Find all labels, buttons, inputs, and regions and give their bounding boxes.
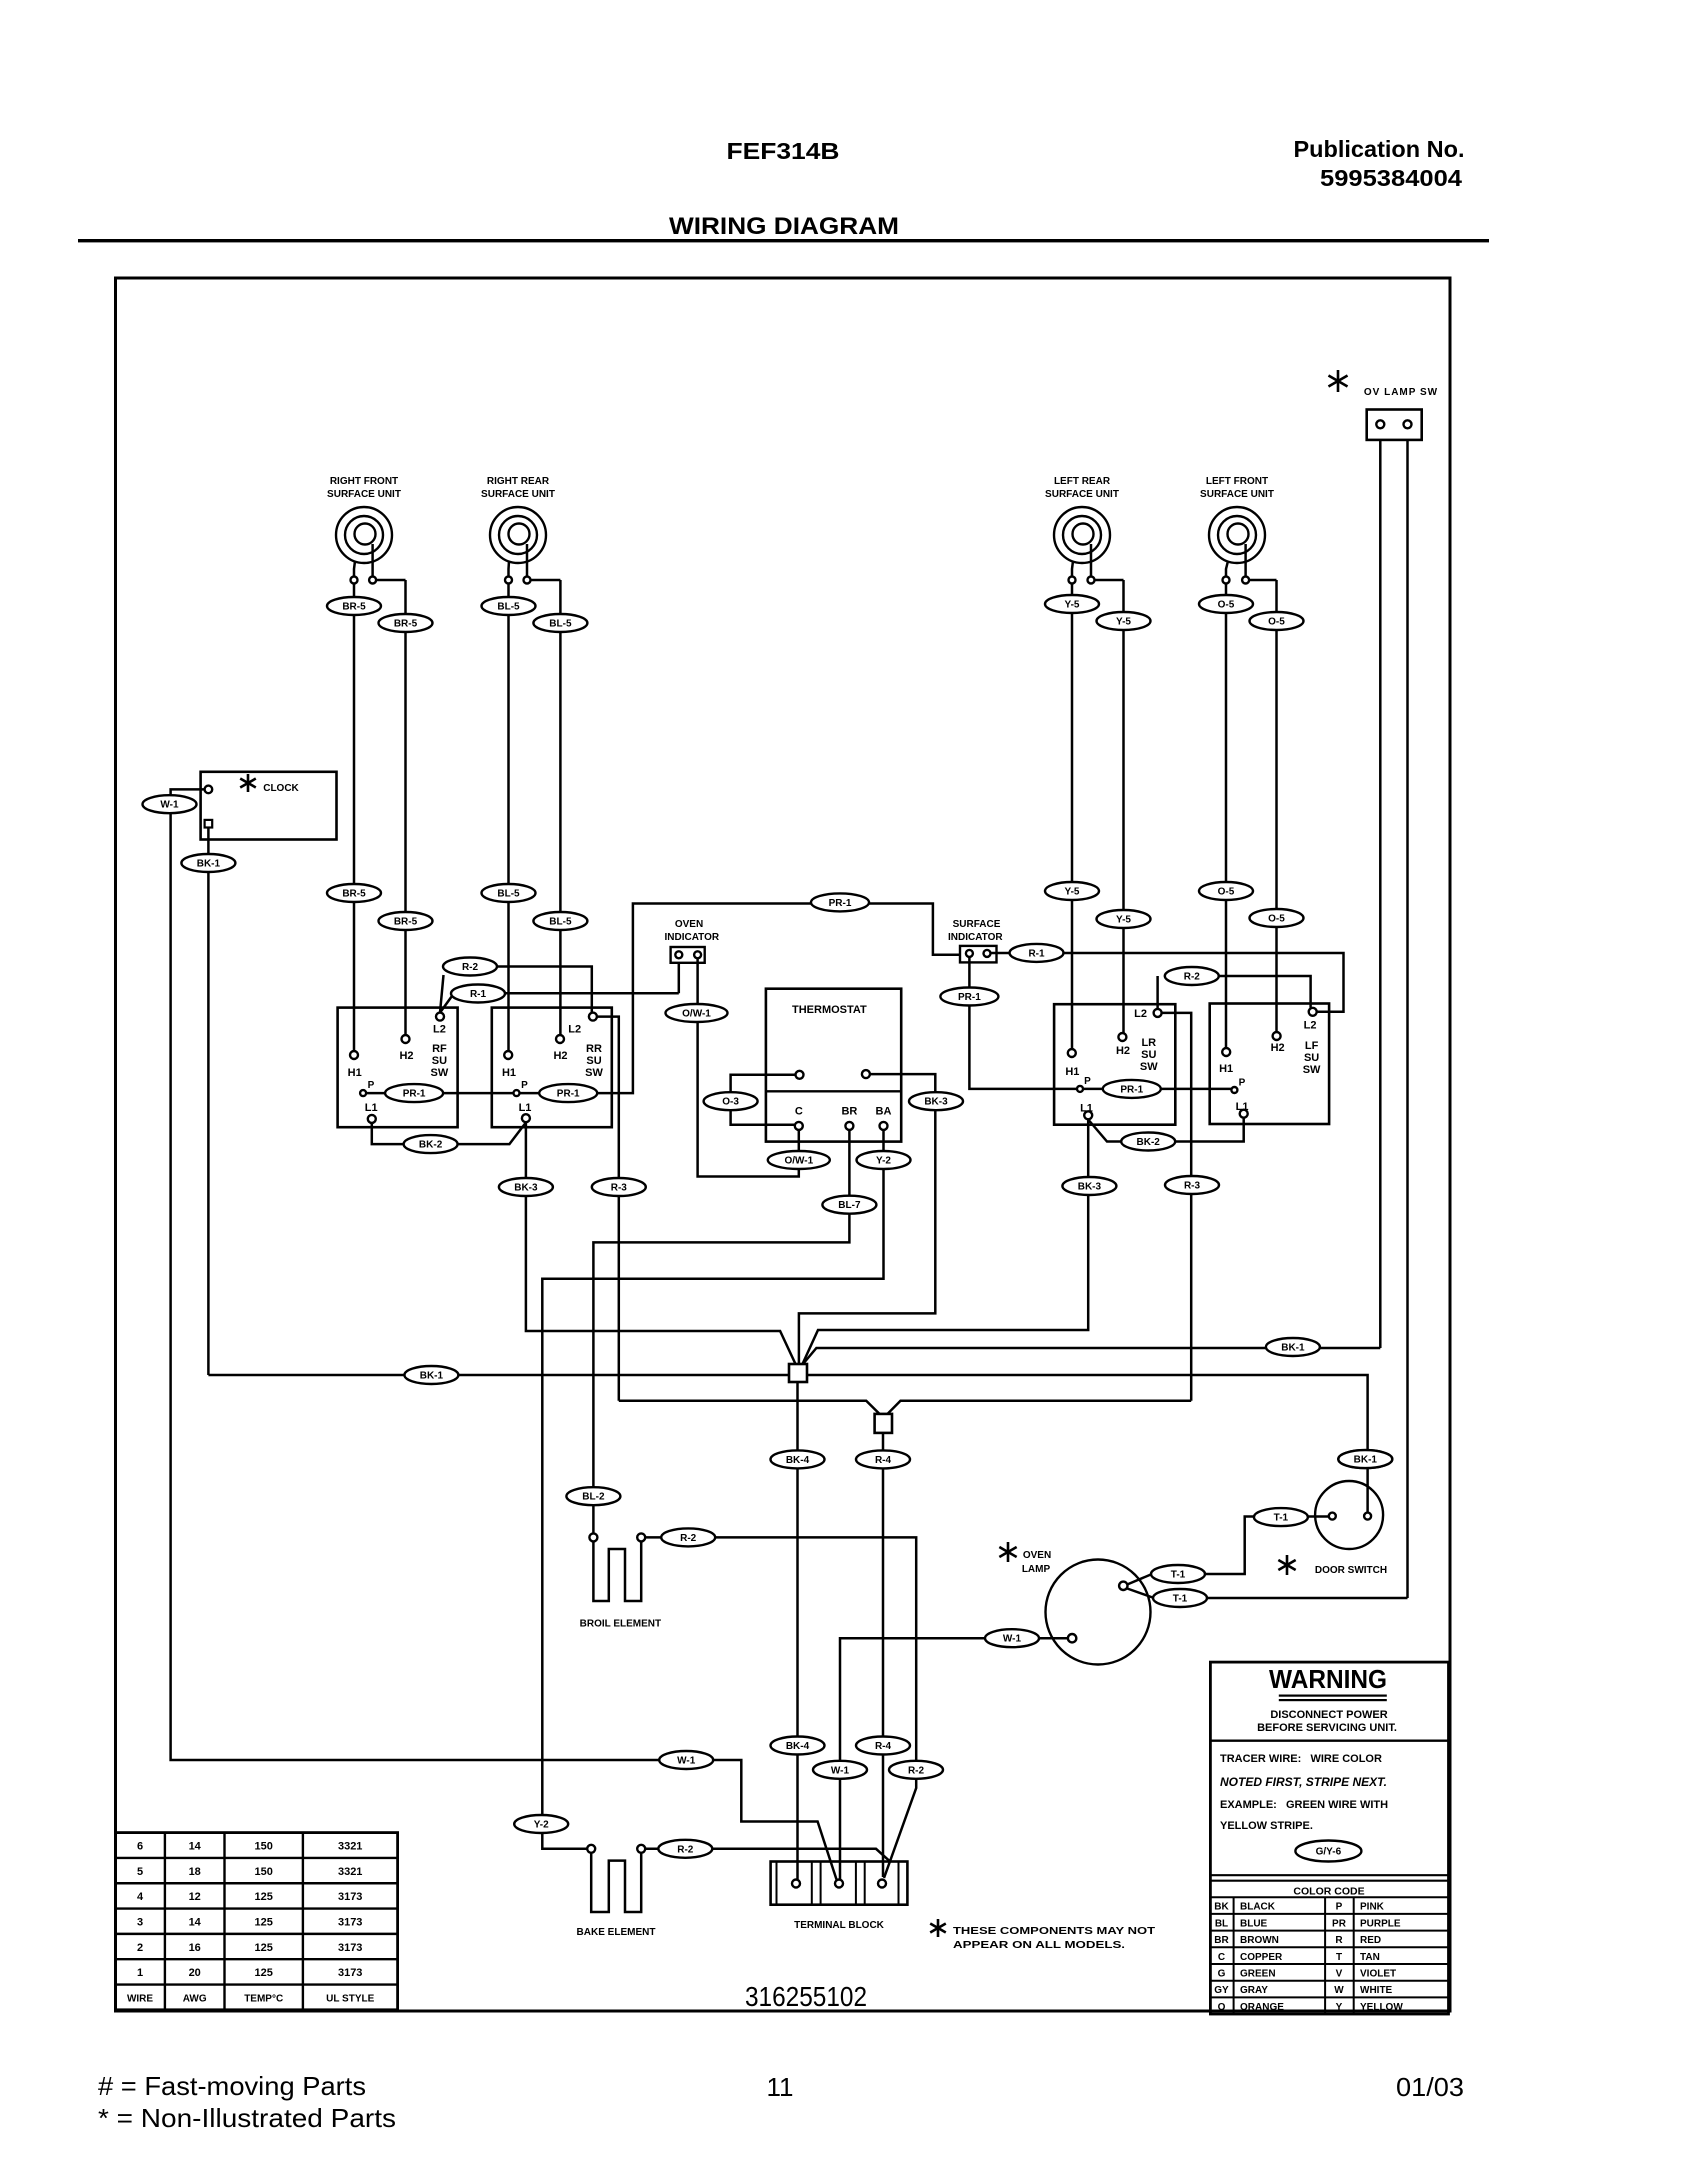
- svg-text:2: 2: [137, 1942, 143, 1954]
- svg-text:BK: BK: [1214, 1902, 1229, 1913]
- svg-text:Y-5: Y-5: [1116, 915, 1131, 926]
- svg-text:DOOR SWITCH: DOOR SWITCH: [1315, 1565, 1387, 1576]
- svg-text:H2: H2: [1116, 1045, 1130, 1057]
- svg-text:BK-2: BK-2: [1137, 1137, 1161, 1148]
- svg-text:W-1: W-1: [677, 1756, 696, 1767]
- svg-text:BA: BA: [876, 1106, 892, 1118]
- svg-text:O-5: O-5: [1218, 887, 1235, 898]
- svg-text:L1: L1: [365, 1102, 378, 1114]
- svg-text:T-1: T-1: [1274, 1513, 1289, 1524]
- svg-text:R-2: R-2: [462, 962, 479, 973]
- svg-text:P: P: [1084, 1076, 1091, 1087]
- svg-text:BAKE ELEMENT: BAKE ELEMENT: [577, 1927, 656, 1938]
- svg-text:BROWN: BROWN: [1240, 1935, 1279, 1946]
- svg-text:TEMP°C: TEMP°C: [244, 1994, 283, 2005]
- svg-text:20: 20: [189, 1967, 201, 1979]
- svg-text:R-2: R-2: [1184, 972, 1201, 983]
- svg-text:BK-1: BK-1: [1281, 1343, 1305, 1354]
- svg-text:COPPER: COPPER: [1240, 1952, 1283, 1963]
- svg-text:BR-5: BR-5: [394, 619, 418, 630]
- svg-text:BL-5: BL-5: [497, 889, 520, 900]
- svg-text:BR: BR: [841, 1106, 857, 1118]
- svg-text:16: 16: [189, 1942, 201, 1954]
- svg-text:Publication No.: Publication No.: [1294, 136, 1465, 162]
- svg-text:1: 1: [137, 1967, 143, 1979]
- svg-text:P: P: [521, 1080, 528, 1091]
- svg-text:L1: L1: [1080, 1103, 1093, 1115]
- svg-text:01/03: 01/03: [1396, 2072, 1464, 2102]
- svg-text:R-3: R-3: [611, 1183, 628, 1194]
- svg-text:SW: SW: [1303, 1064, 1321, 1076]
- svg-text:O-5: O-5: [1268, 914, 1285, 925]
- svg-text:RIGHT FRONT: RIGHT FRONT: [330, 476, 398, 487]
- svg-text:Y-2: Y-2: [876, 1156, 891, 1167]
- svg-text:150: 150: [255, 1841, 273, 1853]
- svg-text:G: G: [1218, 1969, 1226, 1980]
- svg-text:Y: Y: [1336, 2002, 1343, 2013]
- svg-text:BEFORE SERVICING UNIT.: BEFORE SERVICING UNIT.: [1257, 1722, 1397, 1734]
- svg-text:BL: BL: [1215, 1918, 1228, 1929]
- svg-text:BL-5: BL-5: [497, 602, 520, 613]
- svg-text:THERMOSTAT: THERMOSTAT: [792, 1004, 867, 1016]
- svg-text:BR-5: BR-5: [342, 889, 366, 900]
- svg-text:GREEN: GREEN: [1240, 1969, 1276, 1980]
- svg-text:* = Non-Illustrated Parts: * = Non-Illustrated Parts: [98, 2103, 396, 2133]
- svg-text:Y-5: Y-5: [1116, 617, 1131, 628]
- svg-text:14: 14: [189, 1841, 202, 1853]
- svg-text:H2: H2: [399, 1050, 413, 1062]
- svg-text:BL-5: BL-5: [549, 917, 572, 928]
- svg-text:BL-2: BL-2: [582, 1492, 605, 1503]
- svg-text:LEFT REAR: LEFT REAR: [1054, 476, 1111, 487]
- svg-text:PURPLE: PURPLE: [1360, 1918, 1401, 1929]
- svg-text:L2: L2: [433, 1024, 446, 1036]
- svg-text:PR-1: PR-1: [557, 1089, 580, 1100]
- svg-text:SURFACE UNIT: SURFACE UNIT: [1045, 489, 1119, 500]
- svg-text:L2: L2: [1304, 1020, 1317, 1032]
- svg-text:Y-2: Y-2: [534, 1820, 549, 1831]
- svg-text:R-4: R-4: [875, 1741, 892, 1752]
- svg-text:BK-4: BK-4: [786, 1455, 810, 1466]
- svg-text:PR: PR: [1332, 1918, 1347, 1929]
- svg-text:T-1: T-1: [1173, 1594, 1188, 1605]
- svg-text:SURFACE: SURFACE: [953, 919, 1001, 930]
- svg-text:Y-5: Y-5: [1064, 887, 1079, 898]
- svg-text:12: 12: [189, 1891, 201, 1903]
- svg-text:W: W: [1334, 1985, 1344, 1996]
- svg-text:L2: L2: [568, 1024, 581, 1036]
- svg-text:R-2: R-2: [677, 1844, 694, 1855]
- svg-text:OV LAMP SW: OV LAMP SW: [1364, 387, 1438, 398]
- svg-text:H1: H1: [1219, 1063, 1233, 1075]
- svg-text:VIOLET: VIOLET: [1360, 1969, 1396, 1980]
- svg-text:R-2: R-2: [680, 1533, 697, 1544]
- svg-text:RED: RED: [1360, 1935, 1381, 1946]
- svg-text:L1: L1: [1236, 1101, 1249, 1113]
- svg-text:R-1: R-1: [1028, 948, 1045, 959]
- svg-text:SU: SU: [586, 1055, 601, 1067]
- svg-text:3173: 3173: [338, 1942, 362, 1954]
- svg-text:DISCONNECT POWER: DISCONNECT POWER: [1270, 1709, 1387, 1721]
- svg-text:125: 125: [255, 1942, 273, 1954]
- svg-text:LAMP: LAMP: [1022, 1564, 1051, 1575]
- svg-text:TERMINAL BLOCK: TERMINAL BLOCK: [794, 1920, 885, 1931]
- svg-text:H2: H2: [1271, 1042, 1285, 1054]
- svg-text:BK-3: BK-3: [514, 1183, 538, 1194]
- svg-text:BK-3: BK-3: [924, 1097, 948, 1108]
- svg-text:# = Fast-moving Parts: # = Fast-moving Parts: [98, 2071, 366, 2101]
- svg-text:L1: L1: [519, 1102, 532, 1114]
- svg-text:NOTED FIRST, STRIPE NEXT.: NOTED FIRST, STRIPE NEXT.: [1220, 1775, 1387, 1789]
- svg-text:INDICATOR: INDICATOR: [664, 932, 719, 943]
- svg-text:SURFACE UNIT: SURFACE UNIT: [327, 489, 401, 500]
- svg-text:P: P: [1336, 1902, 1343, 1913]
- svg-text:3321: 3321: [338, 1841, 362, 1853]
- svg-text:BR-5: BR-5: [342, 602, 366, 613]
- svg-text:R-4: R-4: [875, 1455, 892, 1466]
- svg-text:SW: SW: [431, 1067, 449, 1079]
- svg-text:316255102: 316255102: [745, 1981, 867, 2012]
- svg-text:W-1: W-1: [831, 1765, 850, 1776]
- svg-text:YELLOW STRIPE.: YELLOW STRIPE.: [1220, 1820, 1313, 1832]
- svg-text:BK-3: BK-3: [1078, 1182, 1102, 1193]
- svg-text:SURFACE UNIT: SURFACE UNIT: [1200, 489, 1274, 500]
- svg-text:CLOCK: CLOCK: [263, 783, 299, 794]
- svg-text:APPEAR ON ALL MODELS.: APPEAR ON ALL MODELS.: [953, 1940, 1125, 1951]
- svg-text:11: 11: [767, 2072, 794, 2102]
- svg-text:LEFT FRONT: LEFT FRONT: [1206, 476, 1268, 487]
- svg-text:LF: LF: [1305, 1040, 1319, 1052]
- svg-text:BK-2: BK-2: [419, 1140, 443, 1151]
- svg-text:WARNING: WARNING: [1269, 1664, 1387, 1694]
- svg-text:O-5: O-5: [1268, 617, 1285, 628]
- svg-text:W-1: W-1: [1003, 1634, 1022, 1645]
- svg-text:SW: SW: [585, 1067, 603, 1079]
- svg-text:LR: LR: [1141, 1037, 1156, 1049]
- svg-text:TRACER WIRE: WIRE COLOR: TRACER WIRE: WIRE COLOR: [1220, 1753, 1382, 1765]
- svg-text:FEF314B: FEF314B: [727, 138, 840, 164]
- svg-text:BL-7: BL-7: [838, 1200, 861, 1211]
- svg-text:GY: GY: [1214, 1985, 1229, 1996]
- svg-text:O: O: [1218, 2002, 1226, 2013]
- svg-text:125: 125: [255, 1967, 273, 1979]
- svg-text:PR-1: PR-1: [829, 898, 852, 909]
- svg-text:O-3: O-3: [722, 1097, 739, 1108]
- svg-text:GRAY: GRAY: [1240, 1985, 1268, 1996]
- svg-text:UL STYLE: UL STYLE: [326, 1994, 374, 2005]
- svg-text:PINK: PINK: [1360, 1902, 1385, 1913]
- svg-text:PR-1: PR-1: [958, 992, 981, 1003]
- svg-text:L2: L2: [1134, 1008, 1147, 1020]
- svg-text:C: C: [795, 1106, 803, 1118]
- svg-text:4: 4: [137, 1891, 144, 1903]
- svg-text:BK-4: BK-4: [786, 1741, 810, 1752]
- svg-text:BLACK: BLACK: [1240, 1902, 1276, 1913]
- svg-text:PR-1: PR-1: [403, 1089, 426, 1100]
- svg-text:RIGHT REAR: RIGHT REAR: [487, 476, 550, 487]
- svg-text:SURFACE UNIT: SURFACE UNIT: [481, 489, 555, 500]
- svg-text:ORANGE: ORANGE: [1240, 2002, 1284, 2013]
- svg-text:W-1: W-1: [160, 800, 179, 811]
- svg-text:125: 125: [255, 1891, 273, 1903]
- svg-text:H1: H1: [1065, 1066, 1079, 1078]
- svg-text:TAN: TAN: [1360, 1952, 1380, 1963]
- svg-text:BR-5: BR-5: [394, 917, 418, 928]
- svg-text:3173: 3173: [338, 1891, 362, 1903]
- svg-text:R-2: R-2: [908, 1765, 925, 1776]
- svg-text:OVEN: OVEN: [1023, 1550, 1051, 1561]
- svg-text:O/W-1: O/W-1: [682, 1009, 711, 1020]
- svg-text:THESE COMPONENTS MAY NOT: THESE COMPONENTS MAY NOT: [953, 1926, 1155, 1937]
- svg-text:H2: H2: [553, 1050, 567, 1062]
- svg-text:BK-1: BK-1: [197, 859, 221, 870]
- svg-text:C: C: [1218, 1952, 1225, 1963]
- svg-text:125: 125: [255, 1917, 273, 1929]
- svg-text:T: T: [1336, 1952, 1342, 1963]
- svg-text:WIRING DIAGRAM: WIRING DIAGRAM: [669, 213, 899, 240]
- svg-text:COLOR CODE: COLOR CODE: [1293, 1886, 1364, 1898]
- svg-text:BL-5: BL-5: [549, 619, 572, 630]
- svg-text:PR-1: PR-1: [1120, 1084, 1143, 1095]
- svg-text:INDICATOR: INDICATOR: [948, 932, 1003, 943]
- svg-text:SW: SW: [1140, 1061, 1158, 1073]
- svg-text:R: R: [1335, 1935, 1343, 1946]
- svg-text:BLUE: BLUE: [1240, 1918, 1268, 1929]
- svg-text:V: V: [1336, 1969, 1343, 1980]
- svg-text:5995384004: 5995384004: [1320, 165, 1462, 191]
- svg-text:O-5: O-5: [1218, 600, 1235, 611]
- svg-text:H1: H1: [502, 1067, 516, 1079]
- svg-text:6: 6: [137, 1841, 143, 1853]
- svg-text:3321: 3321: [338, 1866, 362, 1878]
- svg-text:G/Y-6: G/Y-6: [1316, 1847, 1342, 1858]
- svg-text:BK-1: BK-1: [1354, 1455, 1378, 1466]
- svg-text:Y-5: Y-5: [1064, 600, 1079, 611]
- svg-text:3173: 3173: [338, 1967, 362, 1979]
- svg-text:3: 3: [137, 1917, 143, 1929]
- svg-text:P: P: [368, 1080, 375, 1091]
- svg-text:18: 18: [189, 1866, 201, 1878]
- svg-text:BK-1: BK-1: [420, 1371, 444, 1382]
- svg-text:P: P: [1239, 1078, 1246, 1089]
- svg-text:SU: SU: [1304, 1052, 1319, 1064]
- svg-text:AWG: AWG: [183, 1994, 207, 2005]
- svg-text:H1: H1: [348, 1067, 362, 1079]
- svg-text:BROIL ELEMENT: BROIL ELEMENT: [580, 1619, 661, 1630]
- svg-text:BR: BR: [1214, 1935, 1229, 1946]
- svg-text:3173: 3173: [338, 1917, 362, 1929]
- svg-text:T-1: T-1: [1171, 1570, 1186, 1581]
- svg-text:SU: SU: [432, 1055, 447, 1067]
- svg-text:150: 150: [255, 1866, 273, 1878]
- svg-text:RR: RR: [586, 1043, 602, 1055]
- svg-text:SU: SU: [1141, 1049, 1156, 1061]
- svg-text:5: 5: [137, 1866, 143, 1878]
- svg-text:R-1: R-1: [470, 989, 487, 1000]
- svg-text:14: 14: [189, 1917, 202, 1929]
- svg-text:R-3: R-3: [1184, 1181, 1201, 1192]
- svg-text:O/W-1: O/W-1: [784, 1156, 813, 1167]
- svg-text:WIRE: WIRE: [127, 1994, 153, 2005]
- svg-text:RF: RF: [432, 1043, 447, 1055]
- svg-text:WHITE: WHITE: [1360, 1985, 1393, 1996]
- svg-text:EXAMPLE: GREEN WIRE WITH: EXAMPLE: GREEN WIRE WITH: [1220, 1799, 1388, 1811]
- svg-text:OVEN: OVEN: [675, 919, 703, 930]
- svg-text:YELLOW: YELLOW: [1360, 2002, 1403, 2013]
